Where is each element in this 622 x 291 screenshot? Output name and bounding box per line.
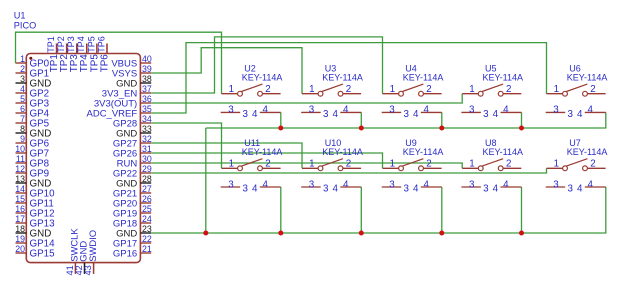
- U6 pin 4: [577, 105, 606, 120]
- U1 pin 12 (GP9): [15, 164, 49, 179]
- wire 3V3_EN to U4 pin1: [151, 37, 382, 94]
- wire GP28 to U11 pin1: [151, 123, 221, 168]
- U9 pin 4: [413, 179, 442, 194]
- switch U6 KEY-114A: [546, 63, 608, 120]
- wire GP0 to U2 pin1: [16, 32, 222, 93]
- svg-text:SWDIO: SWDIO: [87, 230, 98, 262]
- svg-text:1: 1: [229, 159, 234, 170]
- junction U4 pin4 on mid bus: [439, 126, 444, 131]
- svg-text:14: 14: [15, 184, 25, 194]
- wire mid bus to bottom bus vertical: [205, 128, 207, 233]
- svg-text:3: 3: [403, 184, 409, 195]
- U6 contact circles: [563, 91, 588, 96]
- svg-text:3: 3: [228, 105, 234, 116]
- svg-text:2: 2: [426, 159, 431, 170]
- U1 pin 29 (GP22): [113, 164, 152, 179]
- U11 switch lever: [241, 159, 262, 166]
- svg-text:25: 25: [142, 204, 152, 214]
- svg-text:KEY-114A: KEY-114A: [567, 73, 608, 83]
- wire 3V3(OUT) to U5 pin1: [151, 94, 462, 103]
- svg-text:4: 4: [343, 179, 349, 190]
- svg-text:2: 2: [265, 159, 270, 170]
- wire GP27 to U10 pin1: [151, 143, 302, 168]
- wire U4 pin4 drop to mid bus: [441, 112, 443, 128]
- switch U3 KEY-114A: [301, 63, 363, 120]
- svg-text:1: 1: [554, 159, 559, 170]
- U1 pin 22 (GP17): [113, 234, 152, 249]
- svg-text:TP1: TP1: [46, 36, 56, 53]
- U1 pin 43 (SWDIO): [83, 230, 98, 276]
- svg-text:4: 4: [503, 179, 509, 190]
- U1 pin 19 (GP14): [15, 234, 55, 249]
- svg-text:24: 24: [142, 214, 152, 224]
- junction U11 pin4 on bottom bus: [278, 231, 283, 236]
- U2 pin 2: [262, 84, 280, 95]
- U1 pin 11 (GP8): [16, 154, 50, 169]
- svg-text:KEY-114A: KEY-114A: [322, 147, 363, 157]
- U8 pin 3: [461, 179, 489, 194]
- svg-text:3: 3: [483, 184, 489, 195]
- svg-text:21: 21: [142, 244, 152, 254]
- U11 pin 2: [262, 159, 280, 170]
- junction U5 pin4 on mid bus: [519, 126, 524, 131]
- U9 contact circles: [399, 166, 424, 171]
- svg-text:4: 4: [423, 105, 429, 116]
- wire U3 pin4 drop to mid bus: [360, 112, 362, 128]
- svg-text:4: 4: [587, 105, 593, 116]
- svg-text:3: 3: [20, 74, 25, 84]
- svg-text:7: 7: [20, 114, 25, 124]
- U8 pin 2: [503, 159, 521, 170]
- svg-text:2: 2: [590, 84, 595, 95]
- svg-text:TP6: TP6: [99, 54, 110, 73]
- U1 pin 4 (GP2): [16, 84, 50, 99]
- svg-text:1: 1: [390, 159, 395, 170]
- U1 pin TP5 (top test point): [86, 36, 100, 72]
- svg-text:3: 3: [389, 179, 395, 190]
- U1 pin 42 (GND): [74, 241, 89, 276]
- U9 pin 1: [383, 159, 399, 170]
- svg-text:29: 29: [142, 164, 152, 174]
- U7 switch lever: [566, 159, 587, 166]
- U1 pin TP6 (top test point): [96, 36, 110, 72]
- svg-text:1: 1: [554, 84, 559, 95]
- svg-text:3: 3: [242, 184, 248, 195]
- U4 pin 2: [423, 84, 441, 95]
- U8 pin 4: [493, 179, 522, 194]
- U1 pin 15 (GP11): [15, 194, 54, 209]
- svg-text:28: 28: [142, 174, 152, 184]
- wire U5 pin4 drop to mid bus: [521, 112, 523, 128]
- svg-text:2: 2: [346, 84, 351, 95]
- svg-text:1: 1: [309, 84, 314, 95]
- U8 contact circles: [478, 166, 503, 171]
- U1 pin 18 (GND): [15, 224, 51, 239]
- U3 pin 3: [301, 105, 329, 120]
- U1 pin 41 (SWCLK): [65, 228, 80, 276]
- svg-text:38: 38: [142, 74, 152, 84]
- IC U1 PICO (Raspberry Pi Pico) body: [26, 54, 140, 263]
- wire GP26 to U9 pin1: [151, 153, 382, 168]
- svg-text:10: 10: [15, 144, 25, 154]
- svg-text:KEY-114A: KEY-114A: [567, 147, 608, 157]
- svg-text:KEY-114A: KEY-114A: [403, 147, 444, 157]
- U11 pin 1: [222, 159, 238, 170]
- U11 pin 3: [221, 179, 249, 194]
- switch U9 KEY-114A: [382, 138, 444, 195]
- U1 pin 6 (GP4): [16, 104, 50, 119]
- svg-text:KEY-114A: KEY-114A: [483, 73, 524, 83]
- U1 pin 2 (GP1): [16, 64, 50, 79]
- U6 pin 2: [587, 84, 605, 95]
- U2 contact circles: [238, 91, 263, 96]
- switch U11 KEY-114A: [221, 138, 283, 195]
- svg-text:2: 2: [265, 84, 270, 95]
- svg-text:3: 3: [228, 179, 234, 190]
- U1 pin 21 (GP16): [113, 244, 152, 259]
- U7 pin 4: [577, 179, 606, 194]
- svg-text:TP4: TP4: [76, 36, 86, 53]
- svg-text:2: 2: [426, 84, 431, 95]
- svg-text:13: 13: [15, 174, 25, 184]
- svg-text:36: 36: [142, 94, 152, 104]
- svg-text:KEY-114A: KEY-114A: [483, 147, 524, 157]
- svg-text:2: 2: [590, 159, 595, 170]
- svg-text:40: 40: [142, 54, 152, 64]
- svg-text:43: 43: [83, 265, 93, 275]
- svg-text:6: 6: [20, 104, 25, 114]
- U1 pin 14 (GP10): [15, 184, 55, 199]
- U1 pin 33 (GND): [116, 124, 152, 139]
- U1 pin 32 (GP27): [113, 134, 152, 149]
- svg-text:15: 15: [15, 194, 25, 204]
- svg-text:1: 1: [390, 84, 395, 95]
- wire ADC_VREF to U6 pin1: [151, 43, 546, 113]
- U9 switch lever: [402, 159, 423, 166]
- svg-text:4: 4: [587, 179, 593, 190]
- svg-text:2: 2: [506, 84, 511, 95]
- U1 pin TP4 (top test point): [76, 36, 90, 72]
- svg-text:TP5: TP5: [86, 36, 96, 53]
- svg-text:GP15: GP15: [30, 249, 56, 260]
- svg-text:1: 1: [20, 54, 25, 64]
- svg-text:4: 4: [577, 109, 583, 120]
- U5 switch lever: [482, 84, 503, 91]
- switch U8 KEY-114A: [461, 138, 523, 195]
- junction U10 pin4 on bottom bus: [359, 231, 364, 236]
- U3 contact circles: [318, 91, 343, 96]
- U7 contact circles: [563, 166, 588, 171]
- svg-text:17: 17: [15, 214, 25, 224]
- svg-text:4: 4: [413, 109, 419, 120]
- svg-text:3: 3: [389, 105, 395, 116]
- U1 pin-1 marker dot: [29, 57, 32, 60]
- U1 pin 25 (GP19): [113, 204, 152, 219]
- svg-text:39: 39: [142, 64, 152, 74]
- svg-text:31: 31: [142, 144, 152, 154]
- svg-text:27: 27: [142, 184, 152, 194]
- svg-text:16: 16: [15, 204, 25, 214]
- svg-text:4: 4: [343, 105, 349, 116]
- U1 pin 7 (GP5): [16, 114, 50, 129]
- svg-text:3: 3: [309, 179, 315, 190]
- svg-text:3: 3: [323, 109, 329, 120]
- svg-text:KEY-114A: KEY-114A: [242, 73, 283, 83]
- U2 pin 3: [221, 105, 249, 120]
- U1 pin 20 (GP15): [15, 244, 55, 259]
- svg-text:4: 4: [262, 105, 268, 116]
- U3 pin 1: [302, 84, 318, 95]
- svg-text:9: 9: [20, 134, 25, 144]
- U8 switch lever: [482, 159, 503, 166]
- svg-text:KEY-114A: KEY-114A: [242, 147, 283, 157]
- U1 pin TP3 (top test point): [66, 36, 80, 72]
- switch U10 KEY-114A: [301, 138, 363, 195]
- svg-text:33: 33: [142, 124, 152, 134]
- svg-text:1: 1: [469, 84, 474, 95]
- svg-text:4: 4: [423, 179, 429, 190]
- U1 pin 35 (ADC_VREF): [87, 104, 152, 119]
- svg-text:22: 22: [142, 234, 152, 244]
- U1 pin 31 (GP26): [113, 144, 152, 159]
- U10 pin 4: [332, 179, 361, 194]
- svg-text:11: 11: [16, 154, 25, 164]
- wire mid GND bus horizontal: [206, 112, 606, 128]
- U8 pin 1: [462, 159, 478, 170]
- svg-text:2: 2: [20, 64, 25, 74]
- U1 pin 27 (GP21): [113, 184, 152, 199]
- svg-text:8: 8: [20, 124, 25, 134]
- switch U4 KEY-114A: [382, 63, 444, 120]
- svg-text:37: 37: [142, 84, 152, 94]
- U10 pin 2: [343, 159, 361, 170]
- svg-text:1: 1: [469, 159, 474, 170]
- svg-text:32: 32: [142, 134, 152, 144]
- svg-text:KEY-114A: KEY-114A: [322, 73, 363, 83]
- svg-text:KEY-114A: KEY-114A: [403, 73, 444, 83]
- U1 pin 30 (RUN): [117, 154, 152, 169]
- U1 pin 17 (GP13): [15, 214, 55, 229]
- svg-text:30: 30: [142, 154, 152, 164]
- svg-text:3: 3: [403, 109, 409, 120]
- wire RUN to U8 pin1: [151, 163, 462, 168]
- U1 pin 26 (GP20): [113, 194, 152, 209]
- switch U7 KEY-114A: [546, 138, 608, 195]
- U1 pin 39 (VSYS): [112, 64, 152, 79]
- U7 pin 1: [547, 159, 563, 170]
- svg-text:4: 4: [577, 184, 583, 195]
- svg-text:4: 4: [20, 84, 25, 94]
- svg-text:3: 3: [553, 179, 559, 190]
- svg-text:TP3: TP3: [66, 36, 76, 53]
- junction U9 pin4 on bottom bus: [439, 231, 444, 236]
- svg-text:U1: U1: [14, 10, 26, 20]
- svg-text:3: 3: [567, 109, 573, 120]
- U5 pin 4: [493, 105, 522, 120]
- svg-text:3: 3: [469, 179, 475, 190]
- svg-text:GP16: GP16: [113, 249, 137, 260]
- U9 pin 2: [423, 159, 441, 170]
- wire U8 pin4 drop to bottom bus: [521, 187, 523, 233]
- U7 pin 2: [587, 159, 605, 170]
- svg-text:2: 2: [506, 159, 511, 170]
- svg-text:1: 1: [229, 84, 234, 95]
- junction U8 pin4 on bottom bus: [519, 231, 524, 236]
- wire VSYS to U3 pin1: [151, 48, 302, 94]
- U4 pin 4: [413, 105, 442, 120]
- U10 switch lever: [322, 159, 343, 166]
- wire U10 pin4 drop to bottom bus: [360, 187, 362, 233]
- U9 pin 3: [382, 179, 410, 194]
- svg-text:18: 18: [15, 224, 25, 234]
- U10 contact circles: [318, 166, 343, 171]
- junction U3 pin4 on mid bus: [359, 126, 364, 131]
- junction mid-bus riser on bottom bus: [203, 231, 208, 236]
- svg-text:20: 20: [15, 244, 25, 254]
- svg-text:3: 3: [309, 105, 315, 116]
- U10 pin 3: [301, 179, 329, 194]
- U1 pin 40 (VBUS): [111, 54, 152, 69]
- U1 pin 13 (GND): [15, 174, 51, 189]
- U2 pin 1: [222, 84, 238, 95]
- svg-text:3: 3: [469, 105, 475, 116]
- svg-text:4: 4: [252, 109, 258, 120]
- svg-text:4: 4: [503, 105, 509, 116]
- junction U2 pin4 on mid bus: [278, 126, 283, 131]
- svg-text:23: 23: [142, 224, 152, 234]
- switch U2 KEY-114A: [221, 63, 283, 120]
- U6 pin 3: [546, 105, 574, 120]
- U4 pin 3: [382, 105, 410, 120]
- svg-text:4: 4: [413, 184, 419, 195]
- U2 pin 4: [252, 105, 281, 120]
- svg-text:4: 4: [493, 109, 499, 120]
- U1 pin 16 (GP12): [15, 204, 54, 219]
- U10 pin 1: [302, 159, 318, 170]
- U2 switch lever: [241, 84, 262, 91]
- switch U5 KEY-114A: [461, 63, 523, 120]
- U1 pin 38 (GND): [116, 74, 152, 89]
- svg-text:3: 3: [323, 184, 329, 195]
- svg-text:3: 3: [483, 109, 489, 120]
- U1 pin TP1 (top test point): [46, 36, 60, 72]
- U7 pin 3: [546, 179, 574, 194]
- svg-text:26: 26: [142, 194, 152, 204]
- U6 pin 1: [547, 84, 563, 95]
- U3 pin 2: [343, 84, 361, 95]
- U5 pin 1: [462, 84, 478, 95]
- U5 pin 3: [461, 105, 489, 120]
- U1 pin 8 (GND): [16, 124, 52, 139]
- U1 pin 37 (3V3_EN): [102, 84, 152, 99]
- svg-text:2: 2: [346, 159, 351, 170]
- U3 pin 4: [332, 105, 361, 120]
- wire U11 pin4 drop to bottom bus: [280, 187, 282, 233]
- U1 pin 10 (GP7): [15, 144, 49, 159]
- svg-text:34: 34: [142, 114, 152, 124]
- svg-text:12: 12: [15, 164, 25, 174]
- U4 switch lever: [402, 84, 423, 91]
- svg-text:3: 3: [553, 105, 559, 116]
- U1 pin 1 (GP0): [16, 54, 50, 69]
- svg-text:4: 4: [332, 109, 338, 120]
- U1 pin 36 (3V3(OUT)): [94, 94, 152, 109]
- U1 pin 28 (GND): [116, 174, 152, 189]
- svg-text:1: 1: [309, 159, 314, 170]
- wire U2 pin4 drop to mid bus: [280, 112, 282, 128]
- U1 pin 23 (GND): [116, 224, 152, 239]
- svg-text:3: 3: [567, 184, 573, 195]
- wire GND pin23 bottom bus horizontal: [151, 187, 606, 233]
- svg-text:4: 4: [252, 184, 258, 195]
- svg-text:TP2: TP2: [56, 36, 66, 53]
- svg-text:3: 3: [242, 109, 248, 120]
- U1 pin TP2 (top test point): [56, 36, 70, 72]
- U3 switch lever: [322, 84, 343, 91]
- U11 contact circles: [238, 166, 263, 171]
- svg-text:19: 19: [15, 234, 25, 244]
- svg-text:5: 5: [20, 94, 25, 104]
- U1 pin 24 (GP18): [113, 214, 152, 229]
- svg-text:4: 4: [332, 184, 338, 195]
- U4 pin 1: [383, 84, 399, 95]
- U1 pin 9 (GP6): [16, 134, 50, 149]
- U4 contact circles: [399, 91, 424, 96]
- U11 pin 4: [252, 179, 281, 194]
- wire GP22 to U7 pin1: [151, 168, 546, 173]
- U5 pin 2: [503, 84, 521, 95]
- U1 pin 3 (GND): [16, 74, 52, 89]
- U5 contact circles: [478, 91, 503, 96]
- svg-text:TP6: TP6: [96, 36, 106, 53]
- svg-text:PICO: PICO: [14, 21, 36, 31]
- U1 pin 5 (GP3): [16, 94, 50, 109]
- svg-text:35: 35: [142, 104, 152, 114]
- svg-text:4: 4: [262, 179, 268, 190]
- svg-text:4: 4: [493, 184, 499, 195]
- U1 pin 34 (GP28): [113, 114, 152, 129]
- wire U9 pin4 drop to bottom bus: [441, 187, 443, 233]
- U6 switch lever: [566, 84, 587, 91]
